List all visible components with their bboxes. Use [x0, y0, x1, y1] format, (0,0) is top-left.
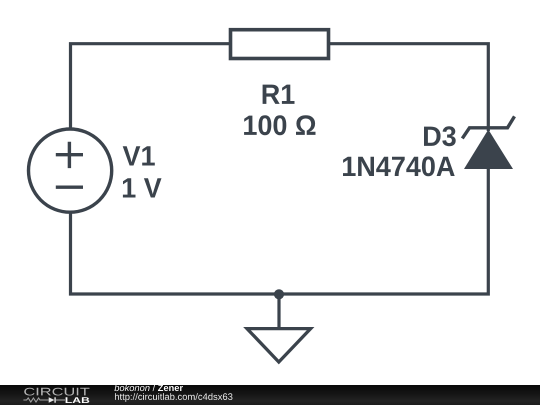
logo diode bar	[54, 397, 56, 402]
zener diode D3 label	[424, 126, 456, 146]
resistor R1 value 100 Ω	[244, 115, 315, 135]
junction node dot	[274, 289, 284, 299]
footer title: bokonon / Zener	[114, 384, 182, 391]
V1 minus sign	[56, 185, 83, 188]
zener diode D3 triangle	[464, 130, 513, 170]
logo diode triangle	[49, 397, 55, 402]
wire top loop: V1 top to R1 to D3 top	[71, 44, 489, 131]
zener diode D3 value 1N4740A	[343, 156, 455, 176]
V1 plus sign	[56, 142, 83, 168]
footer url	[115, 393, 233, 402]
resistor R1 label	[263, 85, 295, 104]
resistor R1	[231, 30, 329, 59]
voltage source V1 circle	[29, 129, 112, 212]
ground stub wire	[277, 294, 280, 330]
zener diode D3 cathode bar	[462, 116, 514, 138]
logo word LAB	[66, 397, 90, 403]
voltage source V1 value 1 V	[123, 178, 162, 197]
voltage source V1 label	[123, 146, 155, 165]
ground symbol triangle	[247, 329, 311, 362]
logo resistor zigzag wire	[23, 398, 48, 402]
wire bottom loop: V1 bottom to ground node to D3 bottom	[71, 167, 489, 294]
logo word CIRCUIT	[24, 388, 89, 396]
footer bar background	[0, 385, 540, 405]
logo wire after diode	[56, 399, 65, 401]
